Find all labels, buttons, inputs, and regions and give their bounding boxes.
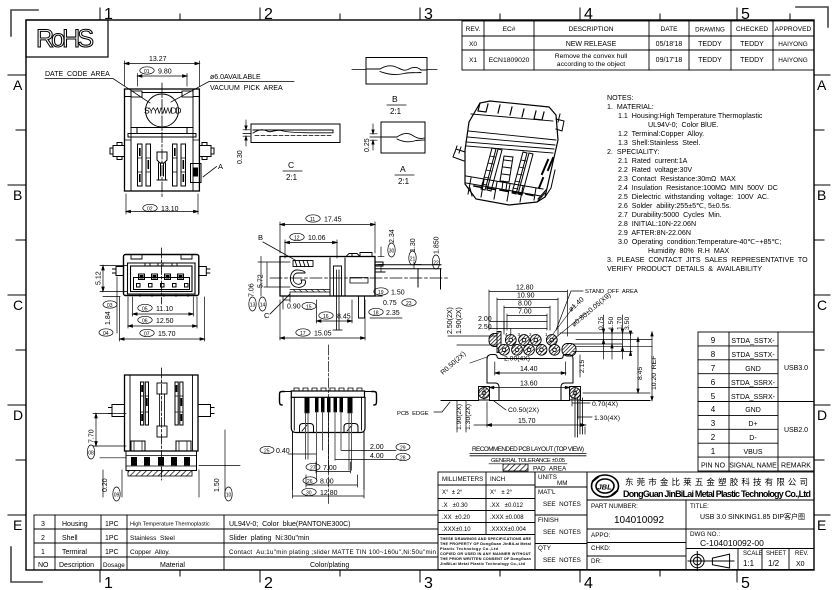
dim 5.72 / 7.06 left xyxy=(258,257,290,297)
svg-text:C: C xyxy=(288,160,294,170)
svg-text:Description: Description xyxy=(59,562,94,569)
dim 2.35 (18) xyxy=(369,308,402,318)
svg-text:104010092: 104010092 xyxy=(614,515,664,526)
svg-text:REMARK: REMARK xyxy=(781,463,811,470)
svg-text:1.30: 1.30 xyxy=(410,238,417,252)
svg-text:Shell: Shell xyxy=(62,535,78,542)
svg-text:27: 27 xyxy=(310,465,316,471)
svg-text:A: A xyxy=(218,162,223,171)
svg-text:SHEET: SHEET xyxy=(766,551,786,557)
materials table xyxy=(34,515,438,570)
svg-text:13.10: 13.10 xyxy=(161,206,179,213)
svg-text:30: 30 xyxy=(389,248,395,254)
svg-text:VBUS: VBUS xyxy=(743,449,762,456)
pin table xyxy=(698,332,814,471)
iso contact strips xyxy=(481,148,533,195)
RoHS logo box xyxy=(26,20,108,57)
center key feature xyxy=(157,152,167,180)
svg-text:1PC: 1PC xyxy=(105,549,119,556)
svg-text:SEE NOTES: SEE NOTES xyxy=(543,501,581,508)
svg-text:RECOMMENDED PCB LAYOUT (TOP VI: RECOMMENDED PCB LAYOUT (TOP VIEW) xyxy=(472,446,584,453)
svg-text:DR:: DR: xyxy=(591,558,602,565)
svg-text:Housing: Housing xyxy=(62,521,88,528)
svg-text:B: B xyxy=(13,187,22,203)
grid ticks top xyxy=(100,8,790,20)
svg-text:FINISH: FINISH xyxy=(538,517,559,524)
front side pegs xyxy=(113,267,210,276)
svg-text:X0: X0 xyxy=(796,561,805,568)
svg-text:CHKD:: CHKD: xyxy=(591,545,611,552)
svg-text:A: A xyxy=(817,77,827,93)
svg-text:3: 3 xyxy=(424,575,433,590)
revision table xyxy=(462,21,814,70)
svg-text:UL94V-0; Color blue(PANTONE3: UL94V-0; Color blue(PANTONE300C) xyxy=(229,521,351,528)
svg-text:according to the object: according to the object xyxy=(557,61,626,68)
svg-text:2.50(2X): 2.50(2X) xyxy=(447,307,454,334)
svg-text:16: 16 xyxy=(323,314,329,320)
svg-text:13.60: 13.60 xyxy=(520,381,538,388)
svg-text:NEW RELEASE: NEW RELEASE xyxy=(566,41,617,48)
svg-text:2.34: 2.34 xyxy=(389,229,396,243)
svg-text:E: E xyxy=(817,517,826,533)
contact slots xyxy=(138,144,186,186)
svg-text:PIN NO: PIN NO xyxy=(701,463,726,470)
svg-text:2.9 AFTER:8N-22.06N: 2.9 AFTER:8N-22.06N xyxy=(618,229,691,237)
svg-text:High Temperature Thermoplastic: High Temperature Thermoplastic xyxy=(130,522,210,528)
svg-text:JinBiLai Metal Plastic Technol: JinBiLai Metal Plastic Technology Co.,Lt… xyxy=(440,562,526,566)
svg-text:X0: X0 xyxy=(469,41,477,48)
svg-text:Humidity 80% R.H MAX: Humidity 80% R.H MAX xyxy=(648,247,729,255)
dim 1.84 (03)(04) xyxy=(103,277,120,333)
svg-text:Contact Au:1u"min plating ;sl: Contact Au:1u"min plating ;slider MATTE … xyxy=(229,549,437,556)
svg-text:PART NUMBER:: PART NUMBER: xyxy=(591,503,638,510)
svg-text:2.8 INITIAL:10N-22.06N: 2.8 INITIAL:10N-22.06N xyxy=(618,220,696,228)
svg-text:NO: NO xyxy=(38,562,49,569)
svg-text:TEDDY: TEDDY xyxy=(740,57,764,64)
third angle projection symbol xyxy=(688,552,734,571)
svg-text:0.30: 0.30 xyxy=(237,150,244,164)
svg-text:3: 3 xyxy=(424,6,433,23)
svg-text:2:1: 2:1 xyxy=(398,177,410,186)
svg-text:28: 28 xyxy=(400,455,406,461)
svg-text:THESE DRAWINGS AND SPECIFICATI: THESE DRAWINGS AND SPECIFICATIONS ARE xyxy=(440,537,531,541)
svg-text:11: 11 xyxy=(310,217,315,223)
svg-text:9: 9 xyxy=(711,336,716,345)
svg-text:03: 03 xyxy=(107,303,113,309)
units column xyxy=(535,472,587,570)
svg-text:25: 25 xyxy=(264,448,270,454)
detail A marker box on plan xyxy=(191,164,202,183)
svg-text:DRAWING: DRAWING xyxy=(695,27,725,34)
svg-text:4.00: 4.00 xyxy=(370,453,384,460)
dim 0.30 for C xyxy=(243,120,250,146)
shell fold band xyxy=(125,128,200,141)
front tongue and contacts xyxy=(134,274,190,297)
svg-text:GENERAL TOLERANCE ±0.05: GENERAL TOLERANCE ±0.05 xyxy=(491,458,566,464)
svg-text:.XXX±0.10: .XXX±0.10 xyxy=(442,527,471,533)
dim 13.60 xyxy=(484,386,575,399)
grid ticks right xyxy=(814,75,830,515)
dim 17.45 (11) xyxy=(280,215,375,253)
svg-text:SIGNAL NAME: SIGNAL NAME xyxy=(729,463,777,470)
svg-text:3: 3 xyxy=(711,419,716,428)
side centerline xyxy=(270,277,450,279)
dim 0.25 for A xyxy=(370,124,377,150)
rear view plate xyxy=(280,388,377,405)
grid labels top xyxy=(104,6,750,23)
svg-text:09/17'18: 09/17'18 xyxy=(656,57,683,64)
dim 13.10 (02) xyxy=(126,194,198,214)
pcb right dim lines xyxy=(560,315,652,359)
dim 0.20 (09) xyxy=(103,470,122,501)
svg-text:01: 01 xyxy=(144,69,150,75)
svg-text:1.30(4X): 1.30(4X) xyxy=(594,415,620,422)
svg-text:0.90: 0.90 xyxy=(287,304,301,311)
dim 8.00 (26) xyxy=(303,475,358,487)
dim 2.34 (30) xyxy=(378,243,395,272)
svg-text:NOTES:: NOTES: xyxy=(607,94,633,102)
svg-text:TEDDY: TEDDY xyxy=(698,57,722,64)
dim 15.70 (07) xyxy=(120,297,205,341)
svg-text:1.2 Terminal:Copper Alloy.: 1.2 Terminal:Copper Alloy. xyxy=(618,130,704,138)
dim 1.50 (10) xyxy=(199,430,232,501)
svg-text:ø6.0AVAILABLE: ø6.0AVAILABLE xyxy=(210,74,261,81)
svg-text:07: 07 xyxy=(144,331,150,337)
svg-text:26: 26 xyxy=(307,479,313,485)
svg-text:2: 2 xyxy=(264,575,273,590)
svg-text:1: 1 xyxy=(545,332,548,337)
svg-text:EC#: EC# xyxy=(503,26,516,33)
svg-text:12.80: 12.80 xyxy=(320,490,338,497)
pcb dims top xyxy=(489,290,568,336)
svg-text:.XXX ±0.008: .XXX ±0.008 xyxy=(490,515,524,521)
svg-text:1/2: 1/2 xyxy=(768,559,780,568)
svg-text:GND: GND xyxy=(745,407,761,414)
svg-text:11.10: 11.10 xyxy=(156,306,173,313)
bottom slots xyxy=(141,382,184,437)
svg-text:1.70: 1.70 xyxy=(617,317,624,330)
svg-text:Remove the convex hull: Remove the convex hull xyxy=(555,53,628,60)
svg-text:2.2 Rated voltage:30V: 2.2 Rated voltage:30V xyxy=(618,166,692,174)
svg-text:3.0 Operating condition:Temp: 3.0 Operating condition:Temperature-40℃~… xyxy=(618,238,781,246)
svg-text:0.25: 0.25 xyxy=(364,138,371,152)
svg-text:1: 1 xyxy=(104,575,113,590)
svg-text:1: 1 xyxy=(41,549,45,556)
svg-text:UNITS: UNITS xyxy=(538,474,557,481)
dim 9.80 (01) xyxy=(138,67,188,86)
svg-text:5.12: 5.12 xyxy=(96,271,103,285)
rear long pins xyxy=(306,412,352,480)
svg-text:04: 04 xyxy=(103,331,109,337)
svg-text:7.00: 7.00 xyxy=(518,309,532,316)
svg-text:1.90(2X): 1.90(2X) xyxy=(456,307,463,334)
svg-text:.XX ±0.20: .XX ±0.20 xyxy=(442,515,471,521)
svg-text:E: E xyxy=(13,517,22,533)
svg-text:REV.: REV. xyxy=(795,551,809,557)
svg-text:3.50: 3.50 xyxy=(624,317,631,330)
iso lid band xyxy=(466,114,556,153)
svg-text:17: 17 xyxy=(300,331,306,337)
grid labels right xyxy=(817,77,827,533)
svg-text:5.72: 5.72 xyxy=(258,274,265,288)
svg-text:A: A xyxy=(400,164,406,174)
svg-text:2. SPECIALITY:: 2. SPECIALITY: xyxy=(607,148,659,156)
svg-text:GND: GND xyxy=(745,366,761,373)
svg-text:6: 6 xyxy=(711,378,716,387)
svg-text:USB3.0: USB3.0 xyxy=(784,365,808,372)
svg-text:C: C xyxy=(817,297,827,313)
svg-text:X1: X1 xyxy=(469,57,477,64)
bottom latches xyxy=(109,405,215,417)
dim 5.12 xyxy=(100,266,127,292)
svg-text:DATE CODE AREA: DATE CODE AREA xyxy=(45,71,110,78)
svg-text:C0.50(2X): C0.50(2X) xyxy=(508,407,539,414)
svg-text:2:1: 2:1 xyxy=(286,173,298,182)
svg-text:12: 12 xyxy=(294,235,300,241)
svg-text:15.70: 15.70 xyxy=(158,331,176,338)
svg-text:3. PLEASE CONTACT JITS SAL: 3. PLEASE CONTACT JITS SALES REPRESENTAT… xyxy=(607,256,808,264)
svg-text:.XX ±0.012: .XX ±0.012 xyxy=(490,503,524,509)
dim 2.00 (29) xyxy=(342,440,411,455)
iso center feature xyxy=(500,156,513,190)
svg-text:2.7 Durability:5000 Cycles: 2.7 Durability:5000 Cycles Min. xyxy=(618,211,722,219)
svg-text:0.40: 0.40 xyxy=(276,448,290,455)
svg-text:Copper Alloy.: Copper Alloy. xyxy=(130,549,170,556)
dim 1.850 (22) xyxy=(432,255,439,269)
svg-text:STDA_SSTX-: STDA_SSTX- xyxy=(731,338,775,345)
svg-text:2.00: 2.00 xyxy=(478,316,492,323)
svg-text:13.27: 13.27 xyxy=(149,56,167,63)
svg-text:02: 02 xyxy=(147,206,153,212)
svg-text:30: 30 xyxy=(306,490,312,496)
dim 8.45 (16) xyxy=(317,300,353,323)
svg-text:VERIFY PRODUCT DETAILS & A: VERIFY PRODUCT DETAILS & AVAILABILITY xyxy=(607,265,762,273)
svg-text:1: 1 xyxy=(711,447,716,456)
svg-text:STDA_SSRX-: STDA_SSRX- xyxy=(731,394,776,401)
svg-text:THE PROPERTY OF DongGuan JinBi: THE PROPERTY OF DongGuan JinBiLai Metal xyxy=(440,542,531,546)
svg-text:2: 2 xyxy=(41,535,45,542)
svg-text:08: 08 xyxy=(88,450,94,456)
svg-text:14.40: 14.40 xyxy=(520,366,538,373)
svg-text:7.70: 7.70 xyxy=(89,429,96,443)
svg-text:USB 3.0 SINKING1.85 DIP客户图: USB 3.0 SINKING1.85 DIP客户图 xyxy=(700,512,805,521)
bottom centerline xyxy=(161,368,163,480)
svg-text:Material: Material xyxy=(160,562,185,569)
svg-text:22: 22 xyxy=(433,260,439,266)
pad numbers xyxy=(505,332,548,337)
svg-text:X° ± 2°: X° ± 2° xyxy=(490,490,513,496)
svg-text:JBL: JBL xyxy=(598,483,613,492)
svg-text:4: 4 xyxy=(505,332,508,337)
svg-text:09: 09 xyxy=(114,492,120,498)
svg-text:2: 2 xyxy=(529,332,532,337)
svg-text:B: B xyxy=(258,233,263,242)
svg-text:SYYWWDD: SYYWWDD xyxy=(144,106,182,116)
svg-text:QTY: QTY xyxy=(538,545,552,552)
front view shell xyxy=(124,255,199,296)
svg-text:DATE: DATE xyxy=(660,26,678,33)
svg-text:2.1 Rated current:1A: 2.1 Rated current:1A xyxy=(618,157,688,165)
pcb mount pads xyxy=(479,387,583,438)
svg-text:INCH: INCH xyxy=(490,476,505,483)
side view top notch xyxy=(346,253,372,257)
side latches xyxy=(110,143,214,160)
svg-text:STDA_SSRX-: STDA_SSRX- xyxy=(731,380,776,387)
svg-text:D: D xyxy=(13,407,23,423)
svg-text:TEDDY: TEDDY xyxy=(698,41,722,48)
svg-text:D: D xyxy=(817,407,827,423)
svg-text:CHECKED: CHECKED xyxy=(736,26,768,33)
plan view outline xyxy=(125,89,200,191)
svg-text:4: 4 xyxy=(711,405,716,414)
rear dark contact tails xyxy=(305,397,353,413)
svg-text:8.00: 8.00 xyxy=(518,301,532,308)
disclaimer text xyxy=(440,537,532,566)
svg-text:.X ±0.30: .X ±0.30 xyxy=(442,503,468,509)
svg-text:1.84: 1.84 xyxy=(105,311,112,325)
svg-text:05/18'18: 05/18'18 xyxy=(656,41,683,48)
svg-text:8.00: 8.00 xyxy=(320,479,334,486)
svg-text:2: 2 xyxy=(264,6,273,23)
svg-text:2.00: 2.00 xyxy=(370,444,384,451)
svg-text:B: B xyxy=(817,187,826,203)
front centerline xyxy=(161,248,163,304)
JBL logo xyxy=(592,475,619,497)
svg-text:1.50: 1.50 xyxy=(391,290,405,297)
svg-text:DESCRIPTION: DESCRIPTION xyxy=(568,26,613,33)
dim 11.10 (05) xyxy=(133,297,194,316)
svg-text:05: 05 xyxy=(142,306,148,312)
leader A on plan xyxy=(203,167,217,178)
svg-text:TITLE:: TITLE: xyxy=(690,503,709,510)
svg-text:14: 14 xyxy=(260,302,266,308)
svg-text:VACUUM PICK AREA: VACUUM PICK AREA xyxy=(210,85,283,92)
dim 7.00 (27) xyxy=(306,462,351,473)
svg-text:2.4 Insulation Resistance:10: 2.4 Insulation Resistance:100MΩ MIN 500V… xyxy=(618,184,778,192)
svg-text:Termiral: Termiral xyxy=(62,549,87,556)
svg-text:MM: MM xyxy=(557,480,568,487)
notes block xyxy=(607,94,808,273)
grid ticks left xyxy=(8,75,26,515)
svg-text:2: 2 xyxy=(711,433,716,442)
svg-text:18: 18 xyxy=(373,310,379,316)
dim 12.80 (30) xyxy=(293,488,365,498)
pcb pads bottom row xyxy=(499,344,576,357)
rear centerline xyxy=(328,345,330,505)
svg-text:2.5 Dielectric withstanding: 2.5 Dielectric withstanding voltage: 100… xyxy=(618,193,769,201)
svg-text:ECN1809020: ECN1809020 xyxy=(489,57,530,64)
svg-text:MILLIMETERS: MILLIMETERS xyxy=(442,476,483,483)
svg-text:REV.: REV. xyxy=(466,26,481,33)
svg-text:1.50: 1.50 xyxy=(608,317,615,330)
svg-text:PAD AREA: PAD AREA xyxy=(533,466,567,473)
pcb pads top row xyxy=(489,332,557,353)
svg-text:UL94V-0; Color BlUE.: UL94V-0; Color BlUE. xyxy=(648,121,719,129)
dim 0.40 (25) xyxy=(260,446,316,454)
side right step and tail xyxy=(375,262,441,296)
svg-text:Plastic Technology Co.,Ltd: Plastic Technology Co.,Ltd xyxy=(440,547,499,551)
grid labels left xyxy=(13,77,23,533)
svg-text:0.75: 0.75 xyxy=(383,300,397,307)
svg-text:DongGuan JinBiLai Metal Plasti: DongGuan JinBiLai Metal Plastic Technolo… xyxy=(623,489,811,499)
svg-text:8: 8 xyxy=(711,350,716,359)
bottom solder section xyxy=(100,451,240,476)
svg-text:USB2.0: USB2.0 xyxy=(784,427,808,434)
svg-text:13: 13 xyxy=(250,302,256,308)
dim 15.05 (17) xyxy=(280,300,365,340)
svg-text:1PC: 1PC xyxy=(105,535,119,542)
svg-text:1. MATERIAL:: 1. MATERIAL: xyxy=(607,103,654,111)
svg-text:Dosage: Dosage xyxy=(103,562,125,569)
svg-text:APPROVED: APPROVED xyxy=(775,26,812,33)
svg-text:D+: D+ xyxy=(748,421,757,428)
svg-text:Stainless Steel: Stainless Steel xyxy=(130,535,175,542)
pcb layout heading xyxy=(470,446,586,473)
svg-text:1PC: 1PC xyxy=(105,521,119,528)
pcb edge line xyxy=(441,400,650,402)
svg-text:5: 5 xyxy=(741,575,750,590)
dim 4.00 (28) xyxy=(336,453,411,460)
svg-text:TEDDY: TEDDY xyxy=(740,41,764,48)
date code circle xyxy=(146,94,179,127)
dim 13.27 xyxy=(125,61,200,86)
svg-text:10.06: 10.06 xyxy=(308,235,326,242)
dim 7.70 (08) xyxy=(87,414,126,460)
svg-text:2.00(4X): 2.00(4X) xyxy=(504,356,530,363)
svg-text:2.50: 2.50 xyxy=(478,324,492,331)
svg-text:23: 23 xyxy=(406,301,412,307)
svg-text:2:1: 2:1 xyxy=(390,107,402,116)
svg-text:8.45: 8.45 xyxy=(337,314,351,321)
svg-text:STDA_SSTX-: STDA_SSTX- xyxy=(731,352,775,359)
svg-text:2.35: 2.35 xyxy=(386,310,400,317)
svg-text:17.45: 17.45 xyxy=(324,217,342,224)
svg-text:X° ± 2°: X° ± 2° xyxy=(442,490,463,496)
pcb footprint outline xyxy=(487,355,573,401)
svg-text:12.80: 12.80 xyxy=(516,285,534,292)
svg-text:21: 21 xyxy=(410,256,416,262)
svg-text:C: C xyxy=(13,297,23,313)
svg-text:1.3 Shell:Stainless Steel.: 1.3 Shell:Stainless Steel. xyxy=(618,139,700,147)
svg-text:7: 7 xyxy=(711,364,716,373)
svg-text:29: 29 xyxy=(400,445,406,451)
svg-text:Slider plating Ni:30u"min: Slider plating Ni:30u"min xyxy=(229,535,309,542)
svg-text:Color/plating: Color/plating xyxy=(310,562,349,569)
grid labels bottom xyxy=(104,575,750,590)
svg-text:2.3 Contact Resistance:30mΩ: 2.3 Contact Resistance:30mΩ MAX xyxy=(618,175,736,183)
svg-text:15: 15 xyxy=(306,304,312,310)
side view body xyxy=(280,257,375,297)
svg-text:1.850: 1.850 xyxy=(434,236,441,254)
dim 10.06 (12) xyxy=(285,233,337,258)
svg-text:1.50: 1.50 xyxy=(214,478,221,492)
iso side markings xyxy=(539,158,553,188)
svg-text:.XXXX±0.004: .XXXX±0.004 xyxy=(490,527,527,533)
svg-text:APPO:: APPO: xyxy=(591,532,610,539)
plan centerline xyxy=(161,83,163,197)
svg-text:3: 3 xyxy=(41,521,45,528)
svg-text:5: 5 xyxy=(741,6,750,23)
svg-text:2.6 Solder ability:255±5℃, 5: 2.6 Solder ability:255±5℃, 5±0.5s. xyxy=(618,202,731,210)
svg-text:PCB EDGE: PCB EDGE xyxy=(397,411,429,417)
svg-text:COPIED OR USED IN ANY MANNER W: COPIED OR USED IN ANY MANNER WITHOUT xyxy=(440,552,532,556)
svg-text:1.1 Housing:High Temperature: 1.1 Housing:High Temperature Thermoplast… xyxy=(618,112,763,120)
svg-text:D-: D- xyxy=(749,435,757,442)
svg-text:RoHS: RoHS xyxy=(36,25,94,53)
iso latches xyxy=(453,114,564,202)
svg-text:0.70(4X): 0.70(4X) xyxy=(592,401,618,408)
svg-text:15.05: 15.05 xyxy=(314,331,332,338)
